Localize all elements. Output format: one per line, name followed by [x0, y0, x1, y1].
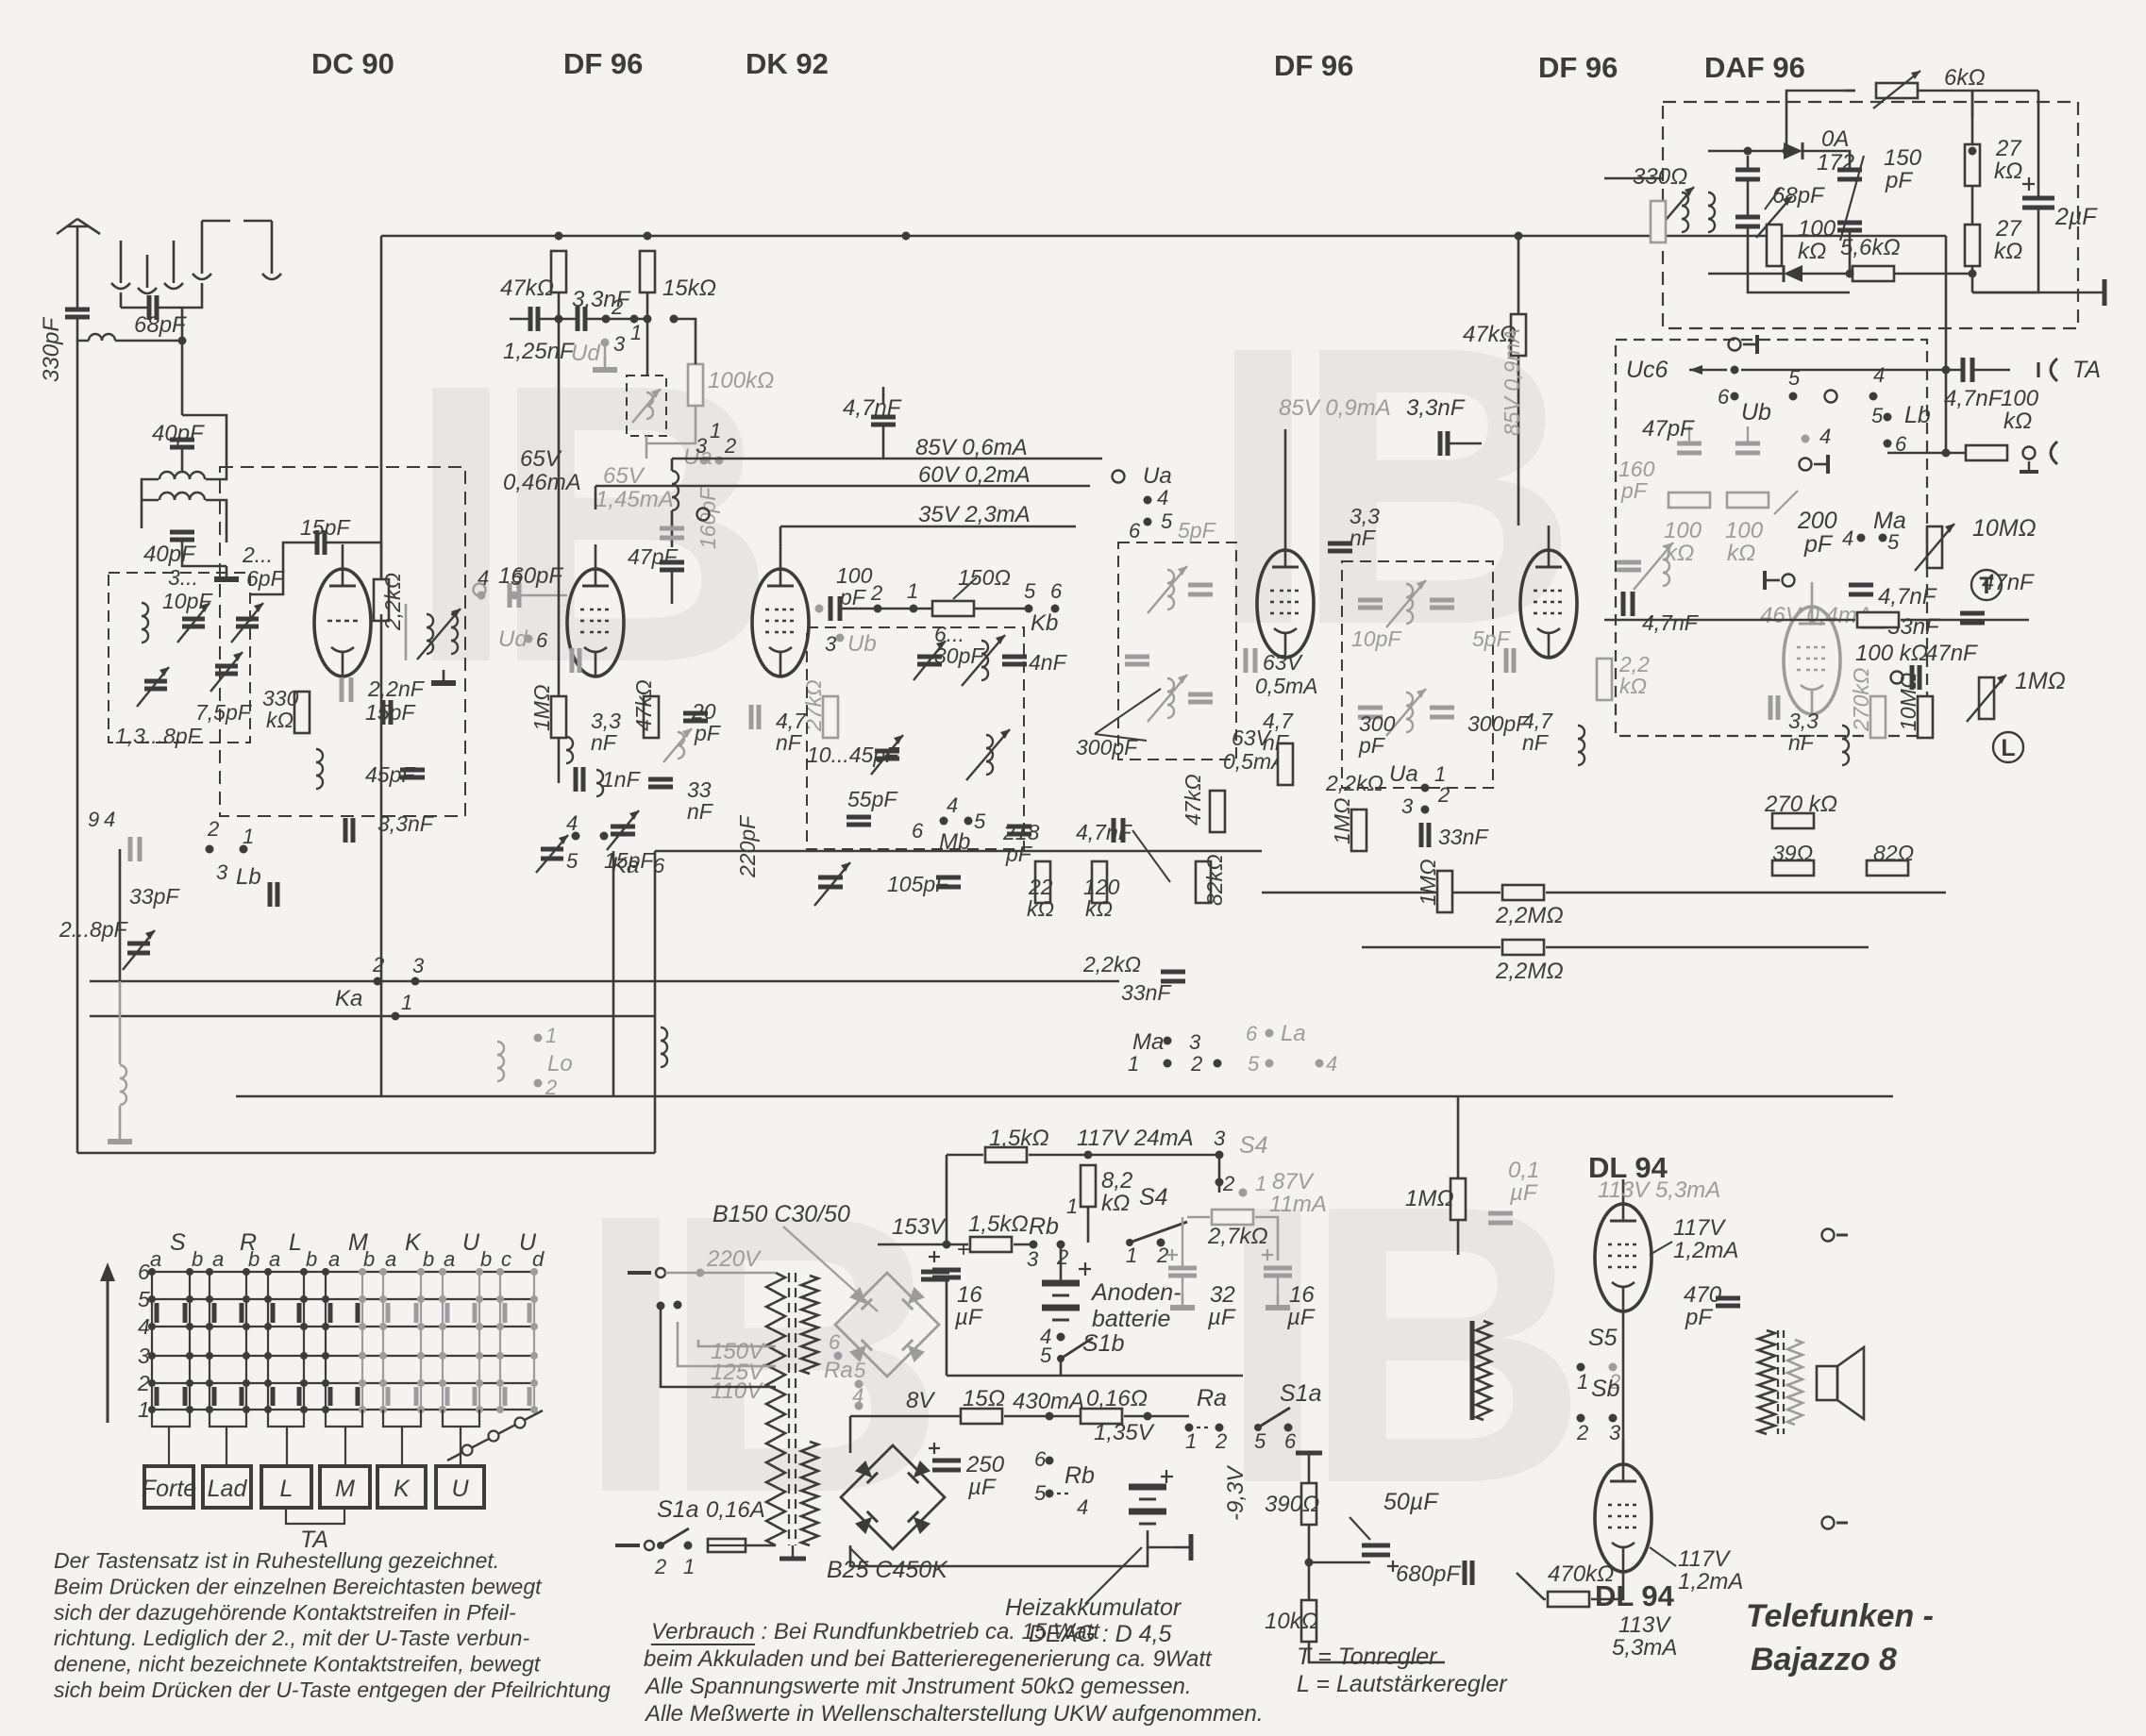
- svg-text:0,5mA: 0,5mA: [1255, 674, 1317, 698]
- IF2 transformer upper: [1406, 584, 1413, 597]
- potentiometer 6kΩ: [1876, 83, 1918, 98]
- svg-text:46V 0,4mA: 46V 0,4mA: [1760, 603, 1872, 628]
- resistor 10MΩ rot: [1918, 696, 1933, 738]
- pentode DF96 first: [567, 569, 624, 676]
- svg-text:2: 2: [870, 581, 882, 605]
- svg-text:5,3mA: 5,3mA: [1612, 1635, 1677, 1661]
- svg-text:B: B: [661, 1133, 947, 1576]
- svg-text:K: K: [394, 1476, 411, 1502]
- wire to 15pF: [250, 542, 315, 594]
- wire to TA cap: [1741, 369, 1962, 372]
- svg-text:L: L: [289, 1229, 302, 1256]
- svg-text:6: 6: [1246, 1022, 1258, 1045]
- svg-text:Alle Meßwerte in Wellenschalte: Alle Meßwerte in Wellenschalterstellung …: [644, 1701, 1264, 1727]
- svg-text:6: 6: [1718, 385, 1730, 409]
- svg-text:1: 1: [710, 419, 721, 442]
- capacitor 68pF ratio: [1735, 168, 1760, 173]
- wire mid h4: [77, 1152, 655, 1155]
- heptode DK92: [752, 569, 809, 676]
- resistor 470kΩ: [1548, 1592, 1589, 1607]
- resistor 1MΩ agc2: [1351, 810, 1366, 851]
- svg-text:1,45mA: 1,45mA: [595, 487, 674, 512]
- svg-text:Sb: Sb: [1591, 1376, 1620, 1402]
- capacitor 218pF: [1007, 825, 1031, 829]
- svg-text:5pF: 5pF: [1178, 518, 1217, 542]
- wire 10k down: [1309, 1642, 1445, 1662]
- trimmer 3...10pF: [182, 617, 205, 622]
- svg-text:3,3nF: 3,3nF: [1406, 395, 1466, 421]
- wire v 404 down: [380, 821, 383, 1096]
- mains terminal 220V: [628, 1271, 651, 1275]
- svg-text:Ra: Ra: [1197, 1385, 1227, 1411]
- svg-text:DC 90: DC 90: [311, 47, 394, 80]
- ratio det transformer: [1682, 192, 1688, 206]
- wire into ratio box: [1604, 177, 1663, 180]
- svg-text:4: 4: [138, 1314, 150, 1339]
- resistor 27kΩ b: [1965, 225, 1980, 266]
- resistor 1MΩ af: [1450, 1178, 1466, 1220]
- matrix arrow: [107, 1269, 109, 1423]
- svg-text:6: 6: [1284, 1429, 1297, 1453]
- svg-text:denene, nicht bezeichnete Kont: denene, nicht bezeichnete Kontaktstreife…: [54, 1652, 542, 1677]
- svg-text:5: 5: [1248, 1052, 1260, 1076]
- svg-text:1,5kΩ: 1,5kΩ: [989, 1126, 1049, 1151]
- svg-text:6: 6: [138, 1260, 150, 1284]
- svg-text:5: 5: [974, 810, 986, 833]
- svg-text:sich der dazugehörende Kontakt: sich der dazugehörende Kontaktstreifen i…: [54, 1600, 516, 1625]
- svg-text:2: 2: [1437, 783, 1450, 807]
- svg-text:2,2MΩ: 2,2MΩ: [1495, 903, 1564, 928]
- svg-text:TA: TA: [2072, 357, 2101, 383]
- bridge B150: [835, 1273, 939, 1377]
- svg-text:Rb: Rb: [1065, 1462, 1095, 1489]
- resistor 2,2kΩ anode: [374, 579, 389, 621]
- svg-text:47kΩ: 47kΩ: [500, 275, 554, 301]
- wire DC90 anode drop: [380, 236, 383, 586]
- svg-text:160pF: 160pF: [498, 563, 563, 589]
- resistor 27kΩ: [823, 696, 838, 738]
- svg-text:1: 1: [243, 825, 254, 848]
- svg-text:150: 150: [1884, 145, 1922, 171]
- svg-text:27: 27: [1995, 136, 2022, 161]
- trimmer 100kΩ ratio: [1767, 225, 1782, 266]
- resistor 47kΩ right: [1511, 314, 1526, 356]
- svg-text:4: 4: [1077, 1495, 1088, 1519]
- svg-text:6pF: 6pF: [246, 566, 286, 591]
- svg-text:K: K: [405, 1229, 422, 1256]
- pentode DF96 third: [1520, 550, 1577, 658]
- svg-text:Lad: Lad: [208, 1476, 248, 1502]
- svg-text:15pF: 15pF: [365, 700, 416, 725]
- svg-text:10MΩ: 10MΩ: [1896, 673, 1920, 731]
- resistor 47kΩ agc: [1210, 791, 1225, 832]
- wire heater rail: [849, 1416, 852, 1453]
- resistor 150Ω: [932, 601, 974, 616]
- svg-text:5: 5: [1871, 404, 1884, 427]
- trimmer left of Ka: [541, 847, 563, 852]
- svg-text:3: 3: [1189, 1030, 1201, 1054]
- svg-text:4: 4: [104, 808, 115, 831]
- wire 85V 0,6mA rail: [672, 458, 1102, 460]
- capacitor 4nF: [1002, 655, 1027, 659]
- svg-text:47nF: 47nF: [1925, 641, 1978, 666]
- potentiometer 1MΩ volume: [1979, 677, 1994, 719]
- svg-text:220pF: 220pF: [735, 814, 760, 878]
- svg-text:10pF: 10pF: [162, 589, 213, 613]
- svg-text:L: L: [2001, 735, 2015, 761]
- IF1 transformer lower: [1167, 678, 1174, 692]
- wire 2,2M a right: [1546, 892, 1946, 894]
- svg-text:4,7nF: 4,7nF: [1878, 584, 1937, 609]
- svg-text:4,7nF: 4,7nF: [1642, 610, 1700, 635]
- wire AM ant to node: [182, 283, 202, 308]
- capacitor 32µF: [1168, 1266, 1197, 1271]
- svg-text:4,7nF: 4,7nF: [1076, 820, 1133, 844]
- resistor 100kΩ gray a: [1668, 492, 1710, 508]
- svg-text:100: 100: [1725, 518, 1764, 543]
- svg-text:DF 96: DF 96: [563, 47, 643, 80]
- svg-text:kΩ: kΩ: [1994, 239, 2022, 264]
- wire 2,2M b left: [1362, 946, 1501, 949]
- svg-text:10...45pF: 10...45pF: [807, 743, 900, 767]
- svg-text:4: 4: [566, 811, 578, 835]
- svg-text:kΩ: kΩ: [2003, 409, 2032, 434]
- svg-text:85V 0,9mA: 85V 0,9mA: [1279, 395, 1391, 421]
- wire long h 1162: [236, 1095, 1893, 1098]
- wire 1M bottom: [558, 738, 561, 783]
- svg-text:153V: 153V: [892, 1214, 947, 1240]
- wire psu mid rail: [947, 1375, 1243, 1377]
- svg-text:Lo: Lo: [547, 1051, 573, 1077]
- wire 15pF to anode line: [327, 542, 381, 586]
- resistor 22kΩ: [1035, 861, 1050, 903]
- keyboard matrix Tastensatz: [148, 1268, 538, 1413]
- svg-text:470kΩ: 470kΩ: [1548, 1561, 1614, 1587]
- capacitor 2µF electrolytic: [2022, 196, 2054, 201]
- TA jacks: [2051, 359, 2057, 381]
- svg-text:nF: nF: [1788, 730, 1816, 755]
- wire anode df96b: [1284, 429, 1287, 526]
- pointer line 2,2kΩ: [1132, 830, 1170, 882]
- resistor 330Ω: [1651, 201, 1666, 242]
- svg-text:c: c: [501, 1247, 511, 1271]
- svg-text:2,2kΩ: 2,2kΩ: [380, 573, 405, 631]
- triode DC90: [314, 569, 371, 676]
- fuse 0,16A: [708, 1539, 746, 1552]
- svg-text:1MΩ: 1MΩ: [529, 685, 554, 731]
- capacitor 330pF antenna: [65, 308, 90, 312]
- svg-text:a: a: [328, 1247, 340, 1271]
- resistor 15kΩ: [640, 251, 655, 292]
- wire 2,2M b right: [1546, 946, 1869, 949]
- svg-text:pF: pF: [1885, 168, 1913, 193]
- wire bus to 47k right: [1517, 236, 1520, 314]
- svg-text:1MΩ: 1MΩ: [1330, 798, 1354, 844]
- svg-text:1,25nF: 1,25nF: [503, 339, 575, 364]
- coil FM input: [142, 603, 148, 616]
- wire 4,7nF to 85V: [882, 426, 885, 459]
- svg-text:270 kΩ: 270 kΩ: [1764, 792, 1837, 817]
- capacitor 33pF: [268, 882, 273, 907]
- svg-text:85V 0,9mA: 85V 0,9mA: [1500, 328, 1524, 436]
- svg-text:1: 1: [683, 1555, 695, 1578]
- svg-text:30pF: 30pF: [934, 643, 985, 668]
- svg-text:47kΩ: 47kΩ: [631, 679, 656, 731]
- ground AM input: [226, 566, 228, 579]
- TA bracket: [286, 1508, 344, 1524]
- wire 1M from bus: [1457, 1096, 1460, 1178]
- capacitor 3,3nF df96c: [1438, 431, 1443, 456]
- capacitor 3,3nF screen: [570, 648, 575, 673]
- speaker: [1817, 1366, 1837, 1400]
- capacitor 680pF: [1463, 1561, 1467, 1585]
- svg-text:200: 200: [1797, 508, 1837, 534]
- wire left v2: [76, 1016, 79, 1153]
- wire ukw coil gray: [646, 406, 696, 443]
- resistor 82kΩ: [1196, 861, 1211, 903]
- svg-text:100: 100: [2001, 386, 2039, 411]
- capacitor 4,7nF grid df96c: [1504, 648, 1509, 673]
- svg-text:richtung. Lediglich der 2., mi: richtung. Lediglich der 2., mit der U-Ta…: [54, 1626, 529, 1650]
- svg-text:9: 9: [88, 808, 99, 831]
- trimmer 15pF osc: [611, 825, 635, 829]
- capacitor 1,25nF: [528, 307, 533, 331]
- svg-text:33pF: 33pF: [129, 884, 180, 909]
- svg-text:kΩ: kΩ: [1619, 674, 1647, 698]
- svg-text:pF: pF: [1358, 733, 1386, 758]
- coil antenna coupling: [89, 334, 102, 341]
- svg-text:2,2MΩ: 2,2MΩ: [1495, 959, 1564, 984]
- svg-text:10pF: 10pF: [1351, 626, 1402, 651]
- svg-text:2: 2: [1190, 1052, 1202, 1076]
- wire antenna lead: [76, 226, 79, 308]
- svg-text:S1a: S1a: [657, 1496, 699, 1523]
- svg-text:110V: 110V: [711, 1378, 763, 1404]
- svg-text:b: b: [192, 1247, 203, 1271]
- switch group 5-4: [1789, 392, 1878, 401]
- svg-text:6kΩ: 6kΩ: [1944, 65, 1986, 91]
- svg-text:nF: nF: [687, 799, 714, 824]
- wire 1M top: [558, 319, 561, 696]
- resistor 270kΩ mid: [1772, 813, 1814, 828]
- svg-text:150Ω: 150Ω: [958, 565, 1011, 590]
- resistor 120kΩ: [1092, 861, 1107, 903]
- svg-text:2: 2: [1222, 1172, 1234, 1195]
- svg-text:nF: nF: [1522, 730, 1550, 755]
- svg-text:L = Lautstärkeregler: L = Lautstärkeregler: [1297, 1671, 1508, 1697]
- resistor 15Ω: [961, 1409, 1002, 1424]
- wire 68pF to node: [181, 308, 184, 341]
- svg-text:40pF: 40pF: [143, 542, 196, 567]
- svg-text:47pF: 47pF: [1642, 416, 1695, 442]
- band buttons: [142, 1466, 484, 1508]
- capacitor 4,7nF grid df96b: [1244, 648, 1249, 673]
- capacitor 33nF osc: [648, 777, 673, 782]
- svg-text:8,2: 8,2: [1101, 1168, 1132, 1193]
- svg-text:Telefunken -: Telefunken -: [1746, 1598, 1934, 1634]
- svg-text:2,2kΩ: 2,2kΩ: [1082, 952, 1141, 976]
- svg-text:4: 4: [1326, 1052, 1337, 1076]
- svg-text:beim Akkuladen und bei Batteri: beim Akkuladen und bei Batterieregenerie…: [644, 1646, 1213, 1672]
- svg-text:0,1: 0,1: [1508, 1158, 1539, 1183]
- svg-text:1nF: 1nF: [602, 767, 642, 792]
- svg-text:B150 C30/50: B150 C30/50: [713, 1201, 850, 1227]
- svg-text:b: b: [423, 1247, 434, 1271]
- svg-text:117V 24mA: 117V 24mA: [1077, 1126, 1194, 1151]
- button connect wires: [169, 1427, 461, 1466]
- svg-text:Lb: Lb: [236, 864, 261, 890]
- svg-text:0,16Ω: 0,16Ω: [1086, 1386, 1148, 1411]
- svg-text:3: 3: [216, 860, 228, 884]
- svg-text:pF: pF: [694, 721, 722, 745]
- output terminals: [1822, 1229, 1835, 1242]
- wire 47k to tube: [1517, 356, 1520, 526]
- dashed box IF2: [1342, 561, 1493, 788]
- svg-text:3: 3: [825, 632, 837, 656]
- wire v 650 down: [612, 851, 615, 1096]
- wire 153V: [878, 1244, 947, 1246]
- dashed box AF section: [1616, 340, 1927, 736]
- volume L circle: [1993, 732, 2023, 762]
- svg-text:3: 3: [696, 434, 708, 458]
- capacitor 33nF daf: [1861, 617, 1886, 622]
- capacitor 40pF lower: [170, 530, 194, 535]
- capacitor 3,3nF coupling: [576, 307, 580, 331]
- capacitor 47nF a: [1960, 611, 1985, 616]
- capacitor 20pF: [683, 711, 708, 716]
- anode battery: [1042, 1280, 1080, 1287]
- svg-text:5: 5: [566, 849, 578, 873]
- svg-text:1: 1: [138, 1397, 150, 1422]
- svg-text:S1b: S1b: [1082, 1330, 1125, 1357]
- svg-text:3...: 3...: [168, 565, 198, 590]
- resistor 1MΩ rot mid: [1437, 871, 1452, 912]
- svg-text:5: 5: [1034, 1481, 1047, 1505]
- svg-text:7,5pF: 7,5pF: [195, 700, 253, 725]
- svg-text:390Ω: 390Ω: [1265, 1492, 1319, 1517]
- svg-text:DF 96: DF 96: [1274, 49, 1353, 82]
- svg-text:Ka: Ka: [612, 853, 639, 878]
- trimmer 10...45pF: [875, 749, 899, 754]
- svg-text:1MΩ: 1MΩ: [1416, 860, 1440, 906]
- svg-text:68pF: 68pF: [1772, 183, 1825, 209]
- capacitor 15pF cathode: [381, 700, 386, 725]
- ground heater: [1176, 1546, 1191, 1549]
- svg-text:430mA: 430mA: [1013, 1389, 1084, 1414]
- pentode DF96 second: [1257, 550, 1314, 658]
- transformer AM input: [159, 472, 175, 479]
- ground FM out: [443, 670, 445, 683]
- svg-text:Kb: Kb: [1031, 610, 1058, 636]
- svg-text:2: 2: [654, 1555, 666, 1578]
- capacitor 50µF: [1362, 1544, 1390, 1548]
- svg-text:5: 5: [1024, 579, 1036, 603]
- svg-text:32: 32: [1210, 1282, 1235, 1308]
- phase splitter choke: [1476, 1321, 1491, 1420]
- svg-text:Bajazzo 8: Bajazzo 8: [1751, 1642, 1897, 1678]
- svg-text:Ud: Ud: [571, 341, 600, 366]
- svg-text:1MΩ: 1MΩ: [1405, 1186, 1454, 1211]
- svg-text:1: 1: [1255, 1172, 1266, 1195]
- capacitor 15pF grid: [315, 530, 320, 555]
- dashed box ratio detector: [1663, 102, 2078, 328]
- svg-text:2,2nF: 2,2nF: [367, 676, 426, 701]
- svg-text:100kΩ: 100kΩ: [708, 368, 774, 393]
- svg-text:2: 2: [1576, 1421, 1588, 1444]
- svg-text:µF: µF: [967, 1475, 997, 1500]
- svg-text:113V: 113V: [1618, 1612, 1671, 1638]
- svg-text:S5: S5: [1588, 1325, 1618, 1351]
- capacitor 150pF: [1837, 168, 1862, 173]
- svg-text:35V 2,3mA: 35V 2,3mA: [918, 502, 1031, 527]
- svg-text:16: 16: [957, 1282, 982, 1308]
- svg-text:2: 2: [611, 295, 623, 319]
- resistor 1,5kΩ b: [970, 1237, 1012, 1252]
- capacitor 105pF: [936, 876, 961, 880]
- trimmer 1,3...8pF: [144, 679, 167, 684]
- svg-text:330Ω: 330Ω: [1633, 164, 1687, 190]
- svg-text:1: 1: [630, 321, 642, 344]
- capacitor 0,1µF: [1488, 1211, 1513, 1216]
- svg-text:6: 6: [536, 628, 548, 652]
- svg-text:1: 1: [1126, 1244, 1137, 1267]
- svg-text:b: b: [480, 1247, 492, 1271]
- svg-text:117V: 117V: [1673, 1215, 1726, 1241]
- svg-text:3: 3: [1401, 794, 1414, 818]
- coil grid lower: [566, 737, 573, 750]
- svg-text:2µF: 2µF: [2054, 204, 2098, 230]
- trimmer 10MΩ: [1927, 526, 1942, 568]
- svg-text:Ud: Ud: [498, 626, 528, 652]
- capacitor 160pF anode gray: [660, 526, 684, 531]
- resistor 1,5kΩ a: [985, 1147, 1027, 1162]
- svg-text:85V 0,6mA: 85V 0,6mA: [915, 435, 1028, 460]
- resistor 270kΩ rot: [1870, 696, 1886, 738]
- svg-text:3: 3: [1214, 1127, 1226, 1150]
- svg-text:63V: 63V: [1263, 650, 1304, 675]
- svg-text:105pF: 105pF: [887, 872, 950, 896]
- svg-text:65V: 65V: [520, 446, 562, 472]
- resistor 47kΩ screen: [644, 696, 659, 738]
- resistor 100kΩ TA: [1966, 445, 2007, 460]
- svg-text:sich beim Drücken der U-Taste: sich beim Drücken der U-Taste entgegen d…: [54, 1678, 611, 1702]
- svg-text:1,3...8pF: 1,3...8pF: [115, 724, 203, 748]
- dashed box FM trimmer group: [109, 573, 250, 743]
- resistor 100kΩ gray: [688, 364, 703, 406]
- capacitor 45pF: [400, 768, 425, 773]
- svg-text:330pF: 330pF: [39, 317, 64, 382]
- capacitor 1nF: [574, 767, 578, 792]
- svg-text:45pF: 45pF: [365, 762, 416, 787]
- resistor 2,2kΩ right: [1597, 659, 1612, 700]
- svg-text:2,7kΩ: 2,7kΩ: [1207, 1224, 1268, 1249]
- svg-text:0,46mA: 0,46mA: [503, 470, 581, 495]
- output transformer: [1758, 1330, 1775, 1434]
- resistor 82Ω: [1867, 860, 1908, 876]
- wire mid h2: [90, 980, 1119, 983]
- coil left bottom: [120, 1065, 126, 1078]
- resistor 2,7kΩ: [1212, 1210, 1253, 1225]
- svg-text:kΩ: kΩ: [1727, 541, 1755, 566]
- svg-text:B25 C450K: B25 C450K: [827, 1557, 948, 1583]
- trimmer variable left: [127, 942, 150, 946]
- svg-text:2: 2: [1215, 1429, 1227, 1453]
- svg-text:6: 6: [829, 1330, 841, 1354]
- wire 4,7nF stub: [882, 387, 885, 404]
- switch Ka cluster: [572, 832, 609, 841]
- wire 100k left: [1604, 619, 1855, 622]
- svg-text:Ua: Ua: [1389, 761, 1418, 787]
